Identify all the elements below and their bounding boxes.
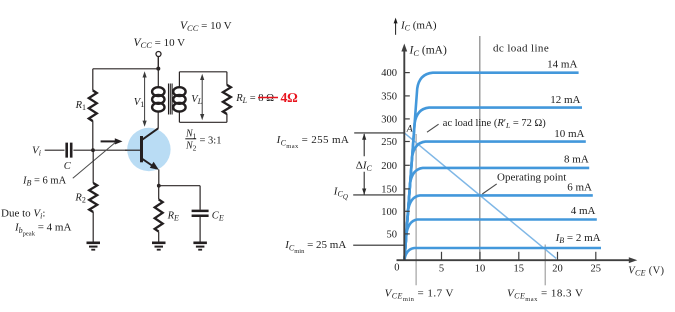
- svg-text:A: A: [406, 124, 413, 134]
- transformer secondary coil: [178, 72, 180, 123]
- svg-text:200: 200: [381, 161, 397, 172]
- svg-text:350: 350: [381, 91, 397, 102]
- ac load line: [404, 132, 557, 258]
- VCC terminal: [156, 52, 161, 57]
- characteristic curve IB = 6 mA: [405, 195, 593, 259]
- resistor R2: [89, 183, 97, 212]
- wire VCC terminal to top node: [157, 57, 159, 69]
- wire top horizontal to R1: [93, 68, 159, 70]
- svg-text:VCEmin = 1.7 V: VCEmin = 1.7 V: [385, 287, 454, 303]
- small axis label (top): [395, 22, 397, 35]
- transistor Q1 base bar: [140, 136, 143, 162]
- svg-text:ICmin = 25 mA: ICmin = 25 mA: [284, 239, 346, 255]
- wire RL leads: [226, 72, 228, 123]
- svg-text:0: 0: [394, 263, 399, 274]
- capacitor CE: [192, 211, 209, 216]
- wire RE to ground: [158, 232, 160, 242]
- svg-text:Operating point: Operating point: [497, 171, 566, 183]
- VL measurement arrow: [201, 78, 203, 116]
- svg-text:dc load line: dc load line: [493, 42, 549, 54]
- delta IC arrow: [363, 134, 365, 194]
- resistor R1: [89, 90, 97, 121]
- wire R2 to ground: [92, 212, 94, 242]
- svg-text:ICQ: ICQ: [333, 185, 348, 201]
- leader to Q point: [482, 184, 496, 194]
- x-axis ticks: [442, 252, 596, 260]
- wire base node to R2: [92, 150, 94, 183]
- svg-text:IC (mA): IC (mA): [409, 45, 447, 58]
- wire R1 top lead: [92, 69, 94, 91]
- wire C to transistor base: [73, 149, 140, 151]
- svg-text:R1: R1: [75, 100, 86, 112]
- VCEmax vertical line: [544, 245, 546, 286]
- wire base (over circle): [125, 149, 140, 151]
- svg-text:= 3:1: = 3:1: [200, 136, 222, 147]
- svg-text:CE: CE: [212, 210, 224, 222]
- svg-text:150: 150: [381, 184, 397, 195]
- transistor Q1 emitter arrowhead: [150, 162, 159, 170]
- ICmin horizontal line at 25 mA: [353, 244, 403, 246]
- x-axis: [397, 259, 631, 261]
- ICQ horizontal line: [353, 194, 403, 196]
- svg-text:14 mA: 14 mA: [547, 58, 577, 70]
- svg-text:5: 5: [439, 263, 444, 274]
- svg-text:VCEmax = 18.3 V: VCEmax = 18.3 V: [507, 287, 583, 303]
- wire RE top lead: [158, 186, 160, 200]
- svg-text:100: 100: [381, 207, 397, 218]
- svg-text:V1: V1: [134, 97, 144, 109]
- transistor shaded circle: [127, 128, 170, 171]
- svg-text:R2: R2: [74, 192, 85, 204]
- dc load line (vertical at VCE = 10 V): [479, 36, 481, 260]
- svg-text:ac load line (R′L = 72 Ω): ac load line (R′L = 72 Ω): [443, 118, 547, 130]
- wire emitter node to CE branch: [159, 185, 200, 187]
- characteristic curve IB = 4 mA: [405, 220, 597, 260]
- svg-text:Due to Vi:: Due to Vi:: [1, 207, 45, 220]
- characteristic curve IB = 14 mA: [405, 73, 579, 260]
- svg-text:RL = 8 Ω: RL = 8 Ω: [235, 93, 274, 105]
- svg-text:20: 20: [552, 263, 563, 274]
- ground (R2): [87, 243, 101, 250]
- capacitor C: [67, 143, 72, 158]
- y-axis ticks: [404, 73, 410, 234]
- characteristic curve IB = 2 mA: [405, 248, 602, 260]
- svg-text:4Ω: 4Ω: [281, 90, 299, 105]
- characteristic curve IB = 10 mA: [405, 142, 586, 260]
- svg-text:C: C: [64, 161, 72, 172]
- svg-text:VCE (V): VCE (V): [628, 266, 664, 278]
- wire Vi to capacitor C: [45, 149, 65, 151]
- svg-text:8 mA: 8 mA: [564, 153, 589, 165]
- svg-text:6 mA: 6 mA: [567, 181, 592, 193]
- transistor Q1 collector lead: [142, 128, 159, 140]
- svg-text:4 mA: 4 mA: [571, 205, 596, 217]
- svg-text:RE: RE: [167, 210, 179, 222]
- y-axis: [403, 49, 405, 261]
- leader line from IB label to arrow: [73, 142, 116, 178]
- arrow IB current: [101, 140, 117, 142]
- resistor RL: [223, 85, 231, 114]
- svg-text:10: 10: [475, 263, 486, 274]
- y tick labels: [381, 68, 397, 240]
- junction dot emitter node: [157, 184, 161, 188]
- svg-text:10 mA: 10 mA: [554, 128, 584, 140]
- wire emitter down to node: [158, 170, 160, 186]
- svg-text:ΔIC: ΔIC: [356, 160, 373, 173]
- svg-text:VCC = 10 V: VCC = 10 V: [180, 20, 232, 33]
- svg-text:Vi: Vi: [32, 145, 41, 158]
- transformer core: [169, 84, 173, 115]
- characteristic curve IB = 12 mA: [405, 108, 583, 260]
- wire secondary loop top: [179, 71, 227, 73]
- transformer primary coil: [157, 57, 159, 87]
- svg-text:IB = 2 mA: IB = 2 mA: [555, 232, 601, 245]
- svg-text:300: 300: [381, 114, 397, 125]
- characteristic curve IB = 8 mA: [405, 168, 590, 260]
- leader to ac load line: [427, 124, 439, 132]
- wire collector up to transformer primary: [157, 111, 159, 129]
- svg-text:400: 400: [381, 68, 397, 79]
- junction dot top node: [156, 67, 160, 71]
- svg-text:N2: N2: [185, 141, 197, 153]
- svg-text:25: 25: [591, 263, 602, 274]
- ground (CE): [193, 243, 207, 250]
- svg-text:ICmax = 255 mA: ICmax = 255 mA: [276, 134, 350, 150]
- svg-text:250: 250: [381, 137, 397, 148]
- svg-text:15: 15: [514, 263, 525, 274]
- svg-text:VL: VL: [191, 94, 202, 106]
- x tick labels: [394, 263, 601, 275]
- ICmax horizontal line at 255 mA: [354, 132, 403, 134]
- junction dot base node: [91, 148, 95, 152]
- svg-text:12 mA: 12 mA: [550, 94, 580, 106]
- red strikethrough: [258, 97, 278, 99]
- wire R1 bottom to base node: [92, 121, 94, 150]
- svg-text:50: 50: [387, 229, 398, 240]
- VCEmin vertical line: [415, 134, 417, 285]
- wire secondary loop bottom: [179, 121, 227, 123]
- svg-text:IC (mA): IC (mA): [400, 20, 437, 33]
- ground (RE): [152, 243, 166, 250]
- resistor RE: [155, 199, 163, 231]
- V1 measurement arrow: [144, 76, 146, 124]
- svg-text:VCC = 10 V: VCC = 10 V: [134, 37, 186, 50]
- wire CE to ground: [199, 217, 201, 242]
- svg-text:IB = 6 mA: IB = 6 mA: [22, 175, 67, 187]
- svg-text:Ibpeak = 4 mA: Ibpeak = 4 mA: [14, 222, 71, 238]
- wire CE top lead: [199, 186, 201, 210]
- transistor Q1 emitter lead: [142, 158, 157, 168]
